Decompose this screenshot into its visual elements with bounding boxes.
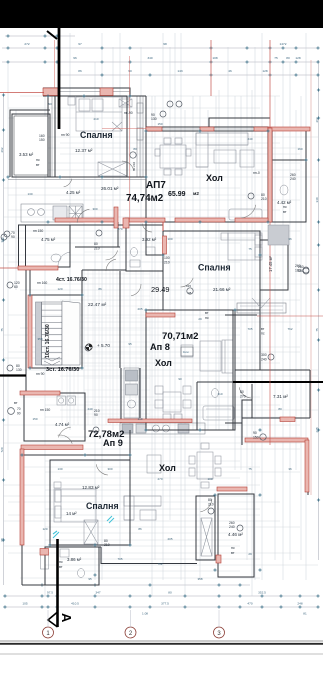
svg-text:248: 248 [297,602,302,606]
svg-text:90: 90 [48,102,52,106]
svg-text:240: 240 [87,407,92,411]
svg-text:1472: 1472 [280,42,287,46]
svg-text:96: 96 [73,56,77,60]
svg-text:Хол: Хол [159,463,176,473]
svg-text:29: 29 [248,552,252,556]
svg-text:160: 160 [137,417,142,421]
svg-text:29: 29 [198,317,202,321]
sofa corner AP7 [196,133,262,220]
svg-text:70: 70 [17,407,21,411]
svg-text:358: 358 [197,577,202,581]
svg-text:75: 75 [315,328,319,332]
svg-text:нп-0: нп-0 [253,171,260,175]
svg-text:80: 80 [94,242,98,246]
dining table AP9 [189,443,221,488]
svg-text:377.5: 377.5 [161,602,169,606]
bath fixtures [23,135,288,578]
svg-text:240: 240 [229,525,235,529]
svg-text:пс: пс [59,560,63,564]
svg-text:36: 36 [288,467,292,471]
svg-text:143: 143 [177,69,182,73]
svg-text:Спалня: Спалня [86,501,119,511]
svg-text:130: 130 [57,467,62,471]
svg-text:60: 60 [14,285,18,289]
door swings [131,284,141,296]
wardrobe AP9 [84,520,98,544]
svg-text:пс: пс [205,316,209,320]
svg-text:130: 130 [27,192,32,196]
svg-text:Ап 9: Ап 9 [103,438,123,448]
svg-text:75: 75 [248,247,252,251]
svg-text:160: 160 [297,147,302,151]
bed AP7 bedroom [68,97,129,131]
svg-text:120: 120 [57,287,62,291]
svg-text:272: 272 [24,42,29,46]
svg-text:130: 130 [16,368,22,372]
svg-text:270: 270 [240,394,246,398]
red accents misc [162,222,164,231]
svg-text:705: 705 [247,327,252,331]
svg-text:150: 150 [32,417,37,421]
kitchen counters AP7 [21,204,83,222]
section line top (A) [58,28,61,129]
svg-text:+ 5.70: + 5.70 [97,343,110,348]
svg-text:90: 90 [94,413,98,417]
cyan tick AP9 [107,516,114,523]
svg-text:262: 262 [0,147,4,152]
svg-text:128: 128 [295,56,300,60]
bottom dimension ticks/numbers [3,583,319,615]
svg-text:3.92 м²: 3.92 м² [142,237,157,242]
svg-text:65.99: 65.99 [168,191,186,198]
svg-text:95: 95 [88,577,92,581]
svg-text:90: 90 [11,235,15,239]
svg-text:1.08: 1.08 [142,612,148,616]
svg-text:Хол: Хол [155,358,172,368]
svg-text:410.5: 410.5 [71,602,79,606]
axis bubble 1 [43,627,54,638]
svg-text:210: 210 [208,502,214,506]
misc circles markers [167,101,173,107]
svg-text:340: 340 [147,56,152,60]
svg-text:98: 98 [163,42,167,46]
svg-text:вт: вт [231,551,235,555]
svg-text:80: 80 [168,591,172,595]
svg-text:80: 80 [286,56,290,60]
svg-text:21.66 м²: 21.66 м² [213,287,231,292]
stairs [36,301,81,365]
svg-text:86: 86 [78,69,82,73]
svg-text:180: 180 [295,268,301,272]
kitchen AP9 horizontal [120,423,205,434]
svg-text:пс: пс [261,332,265,336]
top black band [0,0,323,28]
svg-text:81: 81 [303,612,307,616]
svg-text:36: 36 [288,237,292,241]
bedside X [119,99,132,107]
balcony sill below AP8 bedroom [237,298,286,313]
svg-text:260: 260 [295,264,301,268]
svg-text:340: 340 [315,197,319,202]
svg-text:нп 150: нп 150 [40,408,50,412]
svg-text:74,74м2: 74,74м2 [126,193,164,204]
svg-text:270: 270 [157,477,162,481]
sofa AP9 [124,496,161,520]
drain box AP8 [181,347,193,356]
svg-text:347: 347 [95,591,100,595]
cyan matchline mark [53,531,59,538]
svg-text:Спалня: Спалня [80,130,113,140]
svg-text:4.74 м²: 4.74 м² [55,422,70,427]
svg-text:пс: пс [283,205,287,209]
exterior and interior walls [10,88,310,585]
svg-text:95: 95 [128,342,132,346]
svg-text:210: 210 [94,246,100,250]
wall double lines [8,92,273,223]
svg-text:26.01 м²: 26.01 м² [101,186,119,191]
svg-text:100: 100 [167,237,172,241]
bottom rules [0,640,323,642]
svg-text:470: 470 [247,602,252,606]
svg-text:3ст. 16.76/30: 3ст. 16.76/30 [46,367,79,373]
marker F circle [130,152,136,158]
svg-text:вт: вт [205,311,209,315]
red wall top-left [43,88,58,96]
svg-text:3.86 м²: 3.86 м² [67,557,82,562]
svg-text:120: 120 [42,527,47,531]
red pieces top hall [146,127,162,131]
svg-text:150: 150 [157,122,162,126]
svg-text:80: 80 [133,147,137,151]
bed AP8 bedroom [221,233,262,260]
svg-text:210: 210 [164,260,170,264]
svg-text:пс: пс [36,158,40,162]
svg-text:015: 015 [186,284,191,288]
svg-text:150: 150 [39,138,45,142]
top dimension ticks/numbers [6,34,319,76]
svg-text:АП7: АП7 [146,180,166,191]
svg-text:358: 358 [37,337,42,341]
level marker [86,344,92,350]
side dimension numbers [0,88,320,541]
svg-text:86: 86 [138,527,142,531]
svg-text:300: 300 [261,353,267,357]
red wall hall bottom [55,218,115,222]
svg-text:нп 150: нп 150 [33,229,43,233]
svg-text:A: A [59,613,74,623]
svg-text:762: 762 [287,327,292,331]
svg-text:вт: вт [59,565,63,569]
svg-text:210: 210 [104,543,110,547]
svg-text:300: 300 [107,467,112,471]
svg-text:705: 705 [117,557,122,561]
red wall stairs area [18,266,58,270]
svg-text:80 210: 80 210 [132,161,136,171]
svg-text:4.25 м²: 4.25 м² [66,190,81,195]
shaft strip x137-143 [137,96,143,177]
svg-text:14 м²: 14 м² [66,511,77,516]
svg-text:100: 100 [207,477,212,481]
svg-text:нп 160: нп 160 [37,281,47,285]
red wall AP8 hall top [146,313,175,317]
svg-text:80: 80 [240,390,244,394]
svg-text:762: 762 [157,562,162,566]
svg-text:вт: вт [14,401,18,405]
bathtub AP8 [203,406,234,420]
svg-text:352.5: 352.5 [258,591,266,595]
svg-text:17.45 м²: 17.45 м² [268,255,273,272]
svg-text:97.5: 97.5 [47,591,53,595]
svg-text:90: 90 [17,412,21,416]
svg-text:270: 270 [117,227,122,231]
svg-text:240: 240 [261,357,267,361]
svg-text:м2: м2 [193,191,199,196]
svg-text:12.83 м²: 12.83 м² [82,485,100,490]
section line bottom (A) [56,539,59,627]
scattered ticks [46,94,49,97]
bed AP9 bedroom [54,482,96,522]
svg-text:86: 86 [98,287,102,291]
svg-text:3.53 м²: 3.53 м² [19,152,34,157]
svg-text:97: 97 [78,42,82,46]
svg-text:вт: вт [283,210,287,214]
axis bubble 2 [125,627,136,638]
kitchen AP8 vertical [124,368,139,418]
red wall AP9 [21,445,83,450]
svg-text:720: 720 [0,447,4,452]
svg-text:70,71м2: 70,71м2 [162,331,198,342]
svg-text:150: 150 [253,435,259,439]
svg-text:80: 80 [278,407,282,411]
red wall right vertical [269,40,271,128]
svg-text:нп 90: нп 90 [36,372,45,376]
axis bubble 3 [214,627,225,638]
svg-text:4.75 м²: 4.75 м² [41,237,56,242]
wardrobe AP7 bedroom [98,162,127,176]
closet X AP9 [201,518,212,556]
svg-text:4ст. 16.76/30: 4ст. 16.76/30 [56,277,87,283]
svg-text:240: 240 [290,177,296,181]
svg-text:90: 90 [128,69,132,73]
svg-text:130: 130 [151,117,157,121]
svg-text:100: 100 [164,256,170,260]
svg-text:вт: вт [36,163,40,167]
svg-text:240: 240 [247,137,252,141]
svg-text:12.37 м²: 12.37 м² [75,148,93,153]
svg-text:205: 205 [167,537,172,541]
sofa AP8 [181,340,233,373]
svg-text:0-пи: 0-пи [183,350,189,354]
svg-text:нп 90: нп 90 [61,133,70,137]
svg-text:210: 210 [93,117,98,121]
shaft gray band right [268,225,289,245]
svg-text:4.46 м²: 4.46 м² [228,532,243,537]
dining table AP7 [155,138,191,175]
svg-text:105: 105 [22,602,27,606]
svg-text:Спалня: Спалня [198,263,231,273]
svg-text:128: 128 [262,69,267,73]
svg-text:75: 75 [248,467,252,471]
svg-text:вт: вт [261,327,265,331]
red wall top bedroom right [100,88,113,96]
svg-text:210: 210 [217,392,222,396]
svg-text:22.47 м²: 22.47 м² [88,302,107,308]
dining table AP8 [155,386,191,421]
svg-text:90: 90 [178,377,182,381]
svg-text:Ап 8: Ап 8 [150,342,170,352]
svg-text:75: 75 [274,56,278,60]
marker 015/08 [187,288,193,294]
svg-text:210: 210 [261,197,267,201]
svg-text:300: 300 [92,207,97,211]
section line right [233,381,323,383]
svg-text:90: 90 [253,431,257,435]
svg-text:7.31 м²: 7.31 м² [273,394,288,399]
svg-text:08: 08 [188,291,192,295]
svg-text:46: 46 [228,69,232,73]
interior faint construction lines [3,33,318,596]
svg-text:нп-90: нп-90 [124,111,133,115]
svg-text:10ст. 16.76/30: 10ст. 16.76/30 [45,324,51,358]
svg-text:108: 108 [212,56,217,60]
svg-text:80: 80 [208,498,212,502]
svg-text:75: 75 [0,328,4,332]
svg-text:пс: пс [231,546,235,550]
svg-text:29.49: 29.49 [151,285,170,294]
svg-text:Хол: Хол [206,173,223,183]
red walls bottom right [245,438,308,442]
section line left [0,374,26,376]
svg-text:205: 205 [137,307,142,311]
